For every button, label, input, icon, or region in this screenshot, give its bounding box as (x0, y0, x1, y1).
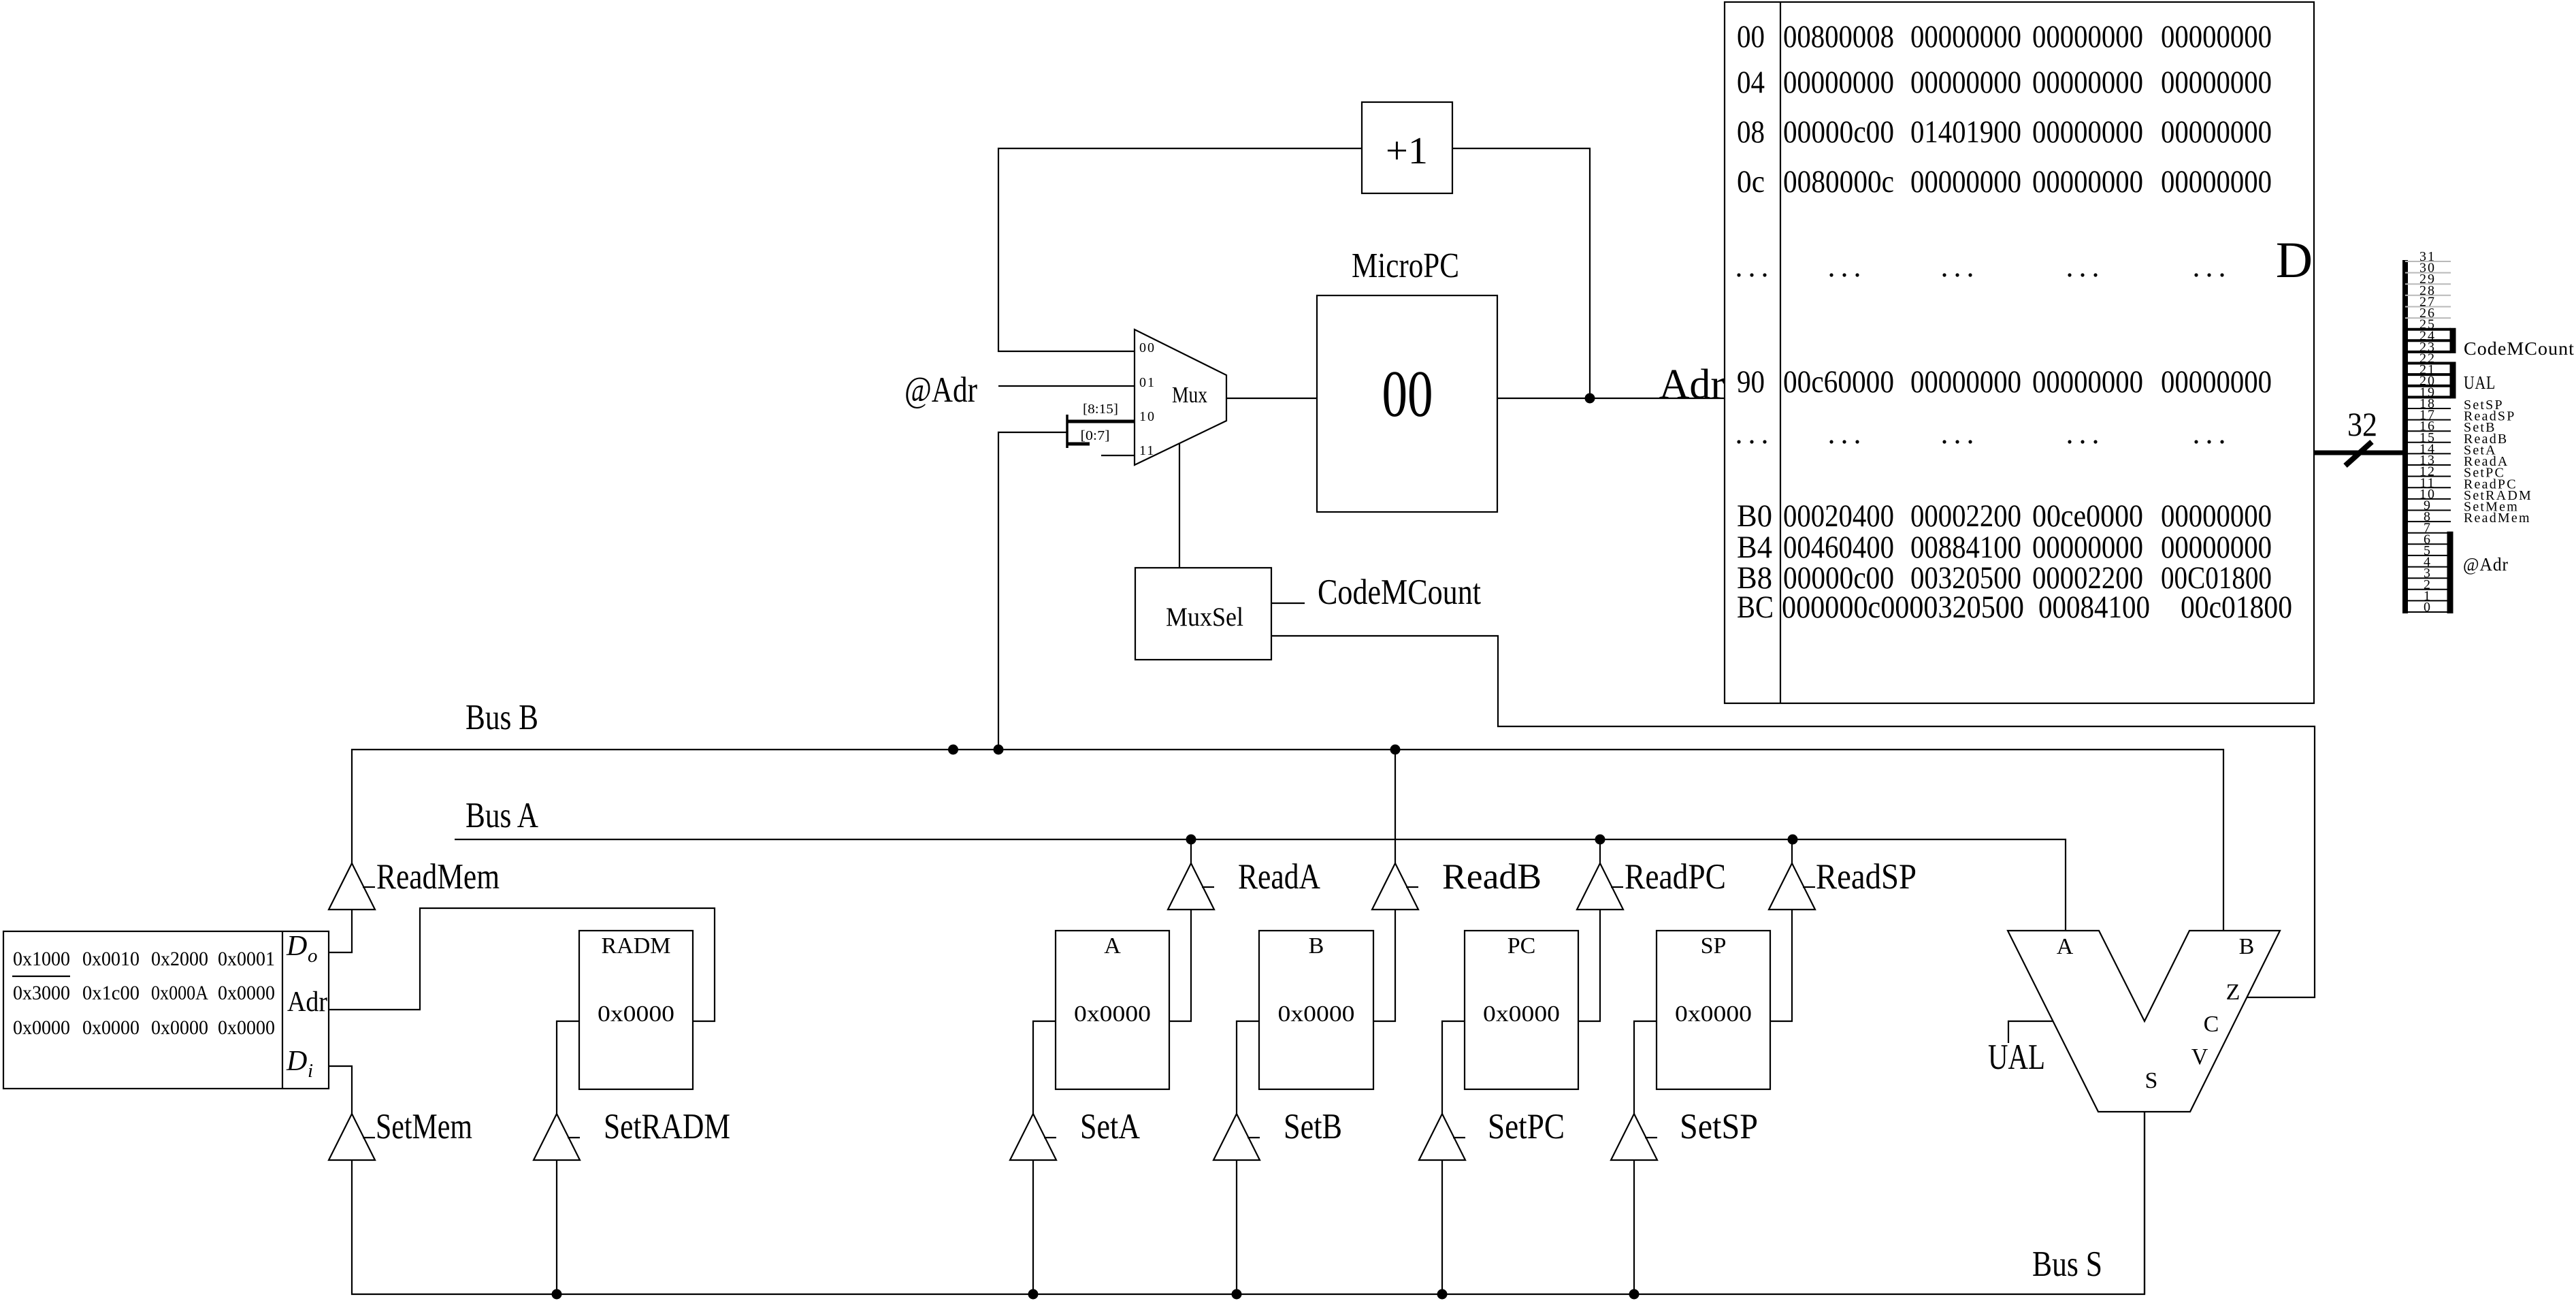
svg-text:SetA: SetA (1080, 1107, 1140, 1146)
wire: feedback loop to Mux input 00 (998, 148, 1362, 351)
label MicroPC (1352, 246, 1459, 285)
wire: ReadSP to bus (1791, 839, 1793, 863)
memory D contents (1737, 19, 2292, 625)
wire: Mux input 11 stub (1101, 455, 1135, 456)
label @Adr (904, 370, 977, 410)
svg-text:00000000: 00000000 (2032, 364, 2143, 400)
CodeMCount bracket (bits 24-23) (2450, 328, 2456, 353)
svg-text:00c60000: 00c60000 (1783, 364, 1894, 400)
junction Bus B / ReadB (1390, 745, 1401, 755)
wire: +1 output loop down to MicroPC output node (1452, 148, 1590, 393)
svg-text:000000c0000320500: 000000c0000320500 (1782, 590, 2024, 625)
svg-text:0x000A: 0x000A (151, 982, 208, 1004)
svg-text:01401900: 01401900 (1910, 114, 2021, 150)
svg-text:D: D (2276, 232, 2313, 289)
svg-text:00002200: 00002200 (1910, 498, 2021, 534)
svg-text:D: D (286, 1046, 307, 1077)
label D (2276, 232, 2313, 289)
MuxSel control box (1135, 568, 1271, 660)
junction Bus S / SetB (1232, 1289, 1242, 1300)
bit cell lines and numbers (2405, 249, 2451, 615)
Mux (MicroPC source selector) (1135, 330, 1226, 465)
svg-text:00c01800: 00c01800 (2181, 590, 2292, 625)
buffer SetPC (1419, 1114, 1465, 1160)
port Di (286, 1046, 313, 1082)
memory contents (12, 948, 275, 1039)
Bus A (455, 839, 2066, 931)
wire: Mux output to MicroPC input (1226, 398, 1317, 399)
wire: MicroPC output to memory D Adr port (1497, 398, 1725, 399)
svg-text:ReadPC: ReadPC (1625, 857, 1726, 897)
label SetMem (376, 1107, 472, 1146)
svg-text:00084100: 00084100 (2038, 590, 2150, 625)
32-bit microinstruction field decoder bar (2402, 260, 2408, 613)
svg-text:SetB: SetB (1284, 1107, 1342, 1146)
mux input labels 00 01 10 11 (1139, 340, 1156, 458)
svg-text:CodeMCount: CodeMCount (1318, 573, 1481, 612)
label SetSP (1680, 1107, 1758, 1146)
register B (1259, 931, 1373, 1089)
svg-text:10: 10 (1139, 409, 1156, 424)
register A (1056, 931, 1169, 1089)
wire: SetPC to PC input (1442, 1021, 1465, 1114)
svg-text:00000000: 00000000 (2032, 114, 2143, 150)
junction Bus A / ReadA (1186, 835, 1196, 845)
wire: ReadB to bus (1395, 750, 1396, 863)
wire: Bus S to SetPC buffer (1441, 1160, 1443, 1294)
svg-text:MicroPC: MicroPC (1352, 246, 1459, 285)
svg-text:0x0000: 0x0000 (218, 982, 275, 1004)
svg-text:SetSP: SetSP (1680, 1107, 1758, 1146)
register SP (1657, 931, 1770, 1089)
svg-text:CodeMCount: CodeMCount (2464, 338, 2575, 359)
svg-text:00000000: 00000000 (2161, 498, 2272, 534)
label ReadPC (1625, 857, 1726, 897)
wire: MuxSel to ALU Z flag (1271, 636, 2315, 997)
register PC (1465, 931, 1578, 1089)
svg-text:00: 00 (1139, 340, 1156, 355)
svg-text:32: 32 (2347, 405, 2377, 443)
svg-text:BC: BC (1737, 590, 1774, 625)
wire: Di from SetMem buffer (329, 1066, 352, 1114)
@Adr bracket (bits 6-0) (2447, 532, 2453, 613)
wire: ReadPC to bus (1599, 839, 1601, 863)
svg-text:ReadSP: ReadSP (1816, 857, 1917, 897)
svg-text:MuxSel: MuxSel (1166, 603, 1243, 632)
wire: SetB to B input (1237, 1021, 1259, 1114)
junction Bus A / ReadSP (1788, 835, 1798, 845)
svg-text:ReadMem: ReadMem (376, 857, 500, 897)
label ReadSP (1816, 857, 1917, 897)
svg-text:i: i (308, 1060, 313, 1082)
svg-text:00000000: 00000000 (2032, 164, 2143, 199)
svg-text:@Adr: @Adr (2463, 554, 2509, 575)
junction Bus S / SetRADM (552, 1289, 562, 1300)
port Do (286, 931, 318, 967)
wire: SetA to A input (1033, 1021, 1056, 1114)
svg-text:0x1c00: 0x1c00 (82, 982, 140, 1004)
svg-text:00020400: 00020400 (1783, 498, 1894, 534)
svg-text:+1: +1 (1386, 130, 1428, 172)
svg-text:Adr: Adr (287, 986, 327, 1018)
svg-text:0x0000: 0x0000 (598, 1001, 674, 1027)
svg-text:00: 00 (1737, 19, 1765, 54)
buffer SetSP (1611, 1114, 1657, 1160)
svg-text:0x0000: 0x0000 (13, 1016, 70, 1039)
svg-text:Adr: Adr (1659, 362, 1725, 408)
stub [0:7] slice (thick) (1067, 443, 1090, 446)
svg-text:0x0000: 0x0000 (151, 1016, 208, 1039)
Bus B (352, 750, 2223, 931)
svg-text:0x1000: 0x1000 (13, 948, 70, 970)
svg-text:PC: PC (1507, 933, 1536, 959)
label ReadB (1442, 857, 1542, 897)
svg-text:00000000: 00000000 (1783, 65, 1894, 100)
svg-text:0x0000: 0x0000 (1074, 1001, 1151, 1027)
32-bit bus from D to decoder (2315, 442, 2405, 466)
svg-text:00: 00 (1382, 357, 1433, 430)
label UAL (1988, 1038, 2045, 1077)
wire: Bus S to SetRADM buffer (556, 1160, 557, 1294)
svg-text:00000000: 00000000 (2161, 364, 2272, 400)
svg-text:D: D (286, 931, 307, 962)
main memory box (3, 931, 329, 1089)
wire: Mux select input from MuxSel (1179, 443, 1180, 568)
junction Bus A / ReadPC (1595, 835, 1605, 845)
svg-text:0c: 0c (1737, 164, 1765, 199)
junction on MicroPC output (1585, 393, 1595, 404)
label SetA (1080, 1107, 1140, 1146)
svg-text:0x0000: 0x0000 (1278, 1001, 1355, 1027)
label [8:15] (1083, 402, 1118, 417)
svg-text:ReadA: ReadA (1238, 857, 1320, 897)
wire: ALU S output to Bus S (2144, 1112, 2145, 1294)
svg-text:B: B (1309, 933, 1324, 959)
wire: UAL control stub (2008, 1021, 2053, 1043)
label [0:7] (1081, 428, 1110, 443)
svg-text:ReadB: ReadB (1442, 857, 1542, 897)
label SetB (1284, 1107, 1342, 1146)
svg-text:0x0001: 0x0001 (218, 948, 275, 970)
buffer ReadSP (1769, 863, 1815, 910)
buffer ReadMem (329, 863, 375, 910)
svg-text:Bus B: Bus B (466, 698, 538, 737)
wire: Bus B tap up to bit-slice bracket (998, 432, 1067, 750)
svg-text:o: o (308, 945, 318, 967)
UAL bracket (bits 21-19) (2450, 362, 2456, 399)
junction Bus S / SetA (1028, 1289, 1039, 1300)
junction Bus S / SetPC (1437, 1289, 1448, 1300)
wire: @Adr to Mux input 01 (998, 385, 1135, 387)
wire: PC output to ReadPC buffer (1578, 910, 1600, 1021)
port Adr (287, 986, 327, 1018)
label @Adr (bits) (2463, 554, 2509, 575)
svg-text:0x0010: 0x0010 (82, 948, 140, 970)
label 32 (2347, 405, 2377, 443)
junction Bus B / tap (948, 745, 958, 755)
svg-text:0x0000: 0x0000 (1483, 1001, 1560, 1027)
svg-text:SetRADM: SetRADM (604, 1107, 730, 1146)
buffer ReadB (1372, 863, 1418, 910)
wire [8:15] slice to Mux input 10 (thick) (1067, 420, 1135, 423)
svg-text:[0:7]: [0:7] (1081, 428, 1110, 443)
label CodeMCount (bits) (2464, 338, 2575, 359)
label SetRADM (604, 1107, 730, 1146)
svg-text:A: A (2057, 934, 2074, 959)
buffer SetMem (329, 1114, 375, 1160)
svg-text:00800008: 00800008 (1783, 19, 1894, 54)
wire: Do to ReadMem buffer (329, 910, 352, 952)
+1 incrementer box (1362, 102, 1452, 193)
svg-text:A: A (1104, 933, 1121, 959)
svg-text:00000c00: 00000c00 (1783, 114, 1894, 150)
Bus S (352, 1112, 2145, 1294)
svg-text:C: C (2204, 1012, 2219, 1037)
svg-text:ReadMem: ReadMem (2464, 511, 2531, 526)
label SetPC (1488, 1107, 1565, 1146)
svg-text:00000000: 00000000 (1910, 65, 2021, 100)
svg-text:00000000: 00000000 (2161, 114, 2272, 150)
label Bus A (466, 796, 538, 835)
wire: SP output to ReadSP buffer (1770, 910, 1792, 1021)
svg-text:B0: B0 (1737, 498, 1772, 534)
svg-text:Z: Z (2226, 980, 2240, 1005)
wire: Bus S to SetB buffer (1236, 1160, 1237, 1294)
svg-text:00000000: 00000000 (2032, 65, 2143, 100)
svg-text:UAL: UAL (1988, 1038, 2045, 1077)
svg-text:SetPC: SetPC (1488, 1107, 1565, 1146)
svg-text:Bus A: Bus A (466, 796, 538, 835)
svg-text:0: 0 (2424, 600, 2432, 615)
svg-text:B: B (2239, 934, 2255, 959)
svg-text:Bus S: Bus S (2032, 1244, 2102, 1284)
wire: B output to ReadB buffer (1373, 910, 1395, 1021)
svg-text:00000000: 00000000 (2161, 19, 2272, 54)
label CodeMCount (1318, 573, 1481, 612)
svg-text:SetMem: SetMem (376, 1107, 472, 1146)
buffer SetA (1010, 1114, 1056, 1160)
label ReadA (1238, 857, 1320, 897)
label Bus S (2032, 1244, 2102, 1284)
svg-text:0x0000: 0x0000 (218, 1016, 275, 1039)
svg-text:11: 11 (1139, 443, 1155, 458)
wire: Bus S to SetSP buffer (1633, 1160, 1635, 1294)
wire: SetRADM to RADM input (557, 1021, 579, 1114)
svg-text:[8:15]: [8:15] (1083, 402, 1118, 417)
svg-text:V: V (2191, 1044, 2208, 1070)
junction Bus B / slice tap (994, 745, 1004, 755)
MicroPC register box with value 00 (1317, 295, 1497, 512)
svg-text:0x3000: 0x3000 (13, 982, 70, 1004)
svg-text:0080000c: 0080000c (1783, 164, 1894, 199)
label Adr (memory D address port) (1659, 362, 1725, 408)
svg-text:RADM: RADM (601, 933, 670, 959)
bit-slice bracket (1066, 415, 1069, 448)
label Bus B (466, 698, 538, 737)
wire: A output to ReadA buffer (1169, 910, 1191, 1021)
svg-text:0x0000: 0x0000 (1675, 1001, 1752, 1027)
svg-text:0x0000: 0x0000 (82, 1016, 140, 1039)
svg-text:00ce0000: 00ce0000 (2032, 498, 2143, 534)
svg-text:@Adr: @Adr (904, 370, 977, 410)
svg-text:04: 04 (1737, 65, 1765, 100)
svg-text:00000000: 00000000 (1910, 364, 2021, 400)
wire: SetSP to SP input (1634, 1021, 1657, 1114)
buffer SetB (1213, 1114, 1260, 1160)
svg-text:00000000: 00000000 (2161, 65, 2272, 100)
svg-text:S: S (2145, 1068, 2158, 1093)
svg-text:Mux: Mux (1172, 383, 1207, 408)
buffer SetRADM (534, 1114, 580, 1160)
svg-text:UAL: UAL (2464, 372, 2496, 393)
svg-text:00000000: 00000000 (2032, 19, 2143, 54)
label ReadMem (376, 857, 500, 897)
svg-text:00000000: 00000000 (2161, 164, 2272, 199)
wire: Adr port from RADM (329, 908, 715, 1021)
microcode memory D box (1725, 2, 2314, 703)
wire: CodeMCount stub from MuxSel (1271, 603, 1305, 604)
buffer ReadA (1168, 863, 1214, 910)
svg-text:00000000: 00000000 (1910, 19, 2021, 54)
wire: Bus S to SetA buffer (1032, 1160, 1034, 1294)
svg-text:SP: SP (1701, 933, 1727, 959)
svg-text:00000000: 00000000 (1910, 164, 2021, 199)
svg-text:90: 90 (1737, 364, 1765, 400)
label UAL (bits) (2464, 372, 2496, 393)
svg-text:01: 01 (1139, 375, 1156, 390)
junction Bus S / SetSP (1629, 1289, 1640, 1300)
register RADM (579, 931, 693, 1089)
buffer ReadPC (1577, 863, 1623, 910)
wire: ReadA to bus (1190, 839, 1192, 863)
svg-text:08: 08 (1737, 114, 1765, 150)
svg-text:0x2000: 0x2000 (151, 948, 208, 970)
bit signal labels (2464, 398, 2532, 526)
ALU (UAL) (2008, 931, 2280, 1112)
